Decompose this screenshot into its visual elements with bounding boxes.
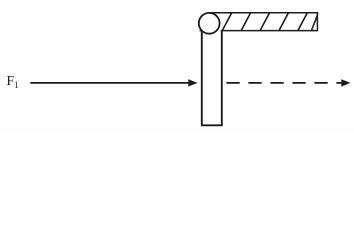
fixed support (hatched ceiling bar) <box>200 12 319 32</box>
dashed arrow (line of action) <box>226 79 350 86</box>
vertical bar (hanging link) <box>201 24 223 125</box>
pivot pin <box>199 13 220 34</box>
force label F1 <box>7 73 19 90</box>
svg-text:1: 1 <box>14 80 19 90</box>
force arrow F1 (solid) <box>30 79 197 86</box>
